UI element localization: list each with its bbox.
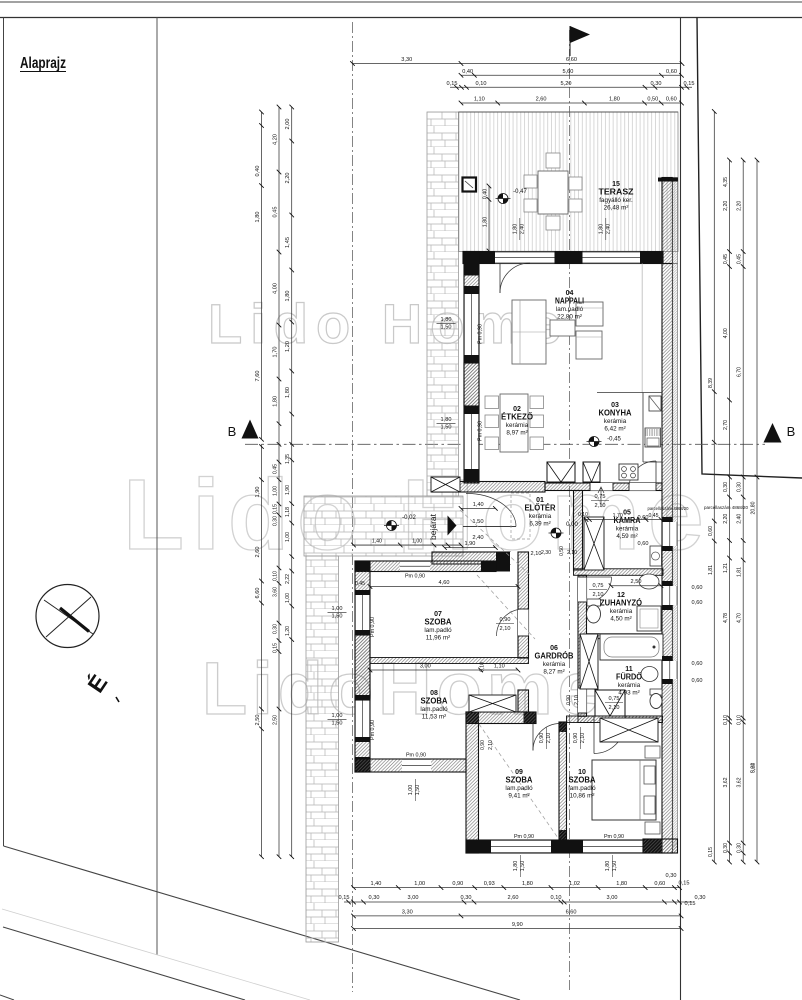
szoba07-08 divider wall xyxy=(370,658,529,664)
svg-text:6,60: 6,60 xyxy=(255,588,261,599)
svg-text:0,60: 0,60 xyxy=(666,97,677,103)
dimension chain vertical x=757 xyxy=(756,160,758,862)
svg-text:0,15: 0,15 xyxy=(684,81,695,87)
svg-text:1,80: 1,80 xyxy=(273,396,279,407)
north wall terrace door east xyxy=(583,252,641,264)
svg-text:kerámia: kerámia xyxy=(506,422,529,429)
szoba10 bed xyxy=(592,760,656,820)
svg-text:0,40: 0,40 xyxy=(255,166,261,177)
svg-text:0,30: 0,30 xyxy=(273,624,279,634)
zuhanyzo west wall xyxy=(578,575,587,716)
terasz north edge line xyxy=(459,111,679,113)
svg-text:4,78: 4,78 xyxy=(723,613,729,623)
svg-text:SZOBA: SZOBA xyxy=(506,775,533,784)
svg-text:0,45: 0,45 xyxy=(273,207,279,218)
svg-text:0,15: 0,15 xyxy=(273,643,279,653)
svg-text:3,00: 3,00 xyxy=(420,664,431,670)
dimension chain vertical x=743.2 xyxy=(742,160,744,862)
szoba09 north wall xyxy=(466,712,536,724)
right chain 1 lower xyxy=(713,442,715,862)
svg-text:3,62: 3,62 xyxy=(751,763,757,773)
szoba10 bedside tables xyxy=(645,746,660,758)
svg-text:0,60: 0,60 xyxy=(692,600,703,606)
svg-text:0,40: 0,40 xyxy=(483,189,489,200)
furdo bathtub xyxy=(600,634,663,660)
svg-text:kerámia: kerámia xyxy=(604,418,627,425)
svg-text:2,40: 2,40 xyxy=(606,224,612,235)
szoba09 door arc xyxy=(533,724,560,751)
svg-text:4,93 m²: 4,93 m² xyxy=(618,690,639,697)
nappali armchair 2 xyxy=(576,331,602,359)
svg-text:lam.padló: lam.padló xyxy=(420,706,448,713)
west wall nappali window xyxy=(464,294,479,355)
svg-text:0,93: 0,93 xyxy=(484,881,495,887)
diagonal plot boundary 2 xyxy=(3,927,245,1000)
house east wall with insulation xyxy=(662,264,673,854)
svg-text:0,00: 0,00 xyxy=(566,522,578,528)
svg-text:1,70: 1,70 xyxy=(613,513,623,519)
gardrob west wall piece xyxy=(518,690,529,712)
south wall window szoba09 xyxy=(491,840,551,853)
svg-text:1,80: 1,80 xyxy=(616,881,627,887)
svg-text:SZOBA: SZOBA xyxy=(569,775,596,784)
dashed projection line szoba07 xyxy=(460,510,530,575)
top border line 2 xyxy=(0,17,802,19)
szoba10 north wall xyxy=(567,716,663,723)
axis line B x=569.5 dash-dot xyxy=(569,30,571,990)
svg-text:0,15: 0,15 xyxy=(273,504,279,514)
svg-text:3,62: 3,62 xyxy=(737,777,743,787)
right boundary line bent x=697-702 xyxy=(697,18,802,479)
svg-text:1,00: 1,00 xyxy=(273,486,279,496)
svg-text:4,00: 4,00 xyxy=(723,328,729,338)
eloter dashed closet xyxy=(511,493,530,539)
svg-text:1,40: 1,40 xyxy=(370,881,381,887)
svg-text:4,70: 4,70 xyxy=(737,613,743,623)
svg-text:1,80: 1,80 xyxy=(513,224,519,235)
szoba09-10 divider end blocks xyxy=(559,722,567,732)
dashed projection line gardrob xyxy=(477,575,535,639)
svg-text:0,10: 0,10 xyxy=(476,81,487,87)
svg-text:bejárat: bejárat xyxy=(428,513,438,540)
east wall window jamb caps xyxy=(662,517,673,522)
svg-text:1,00: 1,00 xyxy=(332,713,343,719)
terasz internal vertical dim xyxy=(488,186,490,251)
svg-text:Alaprajz: Alaprajz xyxy=(20,55,66,72)
svg-text:3,30: 3,30 xyxy=(401,57,412,63)
bejarat arrow xyxy=(448,516,457,536)
south east corner block xyxy=(643,839,678,853)
svg-text:0,30: 0,30 xyxy=(461,895,472,901)
svg-text:6,60: 6,60 xyxy=(566,909,577,915)
zuhanyzo north wall (kamra south) xyxy=(574,569,664,576)
svg-text:1,50: 1,50 xyxy=(441,425,452,431)
svg-text:Pm 0,90: Pm 0,90 xyxy=(514,834,534,840)
svg-text:-0,02: -0,02 xyxy=(402,515,416,521)
house south wall xyxy=(466,840,662,853)
svg-text:1,81: 1,81 xyxy=(708,565,714,575)
svg-text:6,60: 6,60 xyxy=(566,57,577,63)
svg-text:0,50: 0,50 xyxy=(647,97,658,103)
right chain 1 upper xyxy=(713,112,715,443)
svg-text:3,30: 3,30 xyxy=(402,909,413,915)
entrance door leaf and arc xyxy=(463,525,516,527)
svg-text:6,39 m²: 6,39 m² xyxy=(529,521,550,528)
terasz benchmark -0.47 xyxy=(498,194,508,204)
svg-text:20,80: 20,80 xyxy=(751,501,757,514)
svg-text:4,60: 4,60 xyxy=(439,580,450,586)
kamra shelf xbox xyxy=(584,517,604,570)
dimension chain y=87 small xyxy=(450,86,692,88)
svg-text:1,50: 1,50 xyxy=(520,861,526,872)
hall door opening xyxy=(510,552,529,564)
konyha benchmark -0.45 xyxy=(589,437,599,447)
szoba07 north wall xyxy=(355,561,496,572)
svg-text:0,30: 0,30 xyxy=(666,873,677,879)
dimension chain horizontal y=547.6 xyxy=(445,547,496,549)
svg-text:B: B xyxy=(787,424,796,439)
svg-text:1,10: 1,10 xyxy=(494,664,505,670)
svg-text:kerámia: kerámia xyxy=(543,661,566,668)
section marker B left xyxy=(242,420,259,439)
svg-text:TERASZ: TERASZ xyxy=(599,187,634,196)
brick garden wall strip upper (along west facade) xyxy=(427,112,459,496)
svg-text:0,10: 0,10 xyxy=(578,512,588,518)
svg-text:0,15: 0,15 xyxy=(679,881,690,887)
terasz chairs xyxy=(546,153,560,168)
dimension chain horizontal y=915.9 xyxy=(354,915,682,917)
svg-text:2,60: 2,60 xyxy=(508,895,519,901)
bejarat benchmark -0.02 xyxy=(387,521,397,531)
svg-text:1,80: 1,80 xyxy=(522,881,533,887)
svg-text:2,50: 2,50 xyxy=(273,715,279,725)
svg-text:7,60: 7,60 xyxy=(255,371,261,382)
svg-text:0,45: 0,45 xyxy=(355,581,365,587)
svg-text:1,90: 1,90 xyxy=(465,541,476,547)
szoba07 west window xyxy=(355,595,370,630)
svg-text:1,00: 1,00 xyxy=(412,539,422,545)
kamra west wall xyxy=(574,491,583,571)
svg-text:0,90: 0,90 xyxy=(566,695,572,705)
svg-text:1,80: 1,80 xyxy=(483,217,489,228)
svg-text:parcellaszám 4868/20: parcellaszám 4868/20 xyxy=(704,505,749,510)
svg-text:2,00: 2,00 xyxy=(285,119,291,130)
svg-text:3,60: 3,60 xyxy=(273,587,279,597)
svg-text:2,30: 2,30 xyxy=(541,550,551,556)
nappali armchair 1 xyxy=(576,302,603,326)
szoba08 south window xyxy=(402,759,431,772)
svg-text:1,70: 1,70 xyxy=(273,347,279,358)
west wall bedrooms xyxy=(355,561,370,772)
svg-text:0,90: 0,90 xyxy=(573,733,579,744)
svg-text:kerámia: kerámia xyxy=(618,682,641,689)
svg-text:5,60: 5,60 xyxy=(563,69,574,75)
svg-text:2,40: 2,40 xyxy=(520,224,526,235)
dimension chain y=902 xyxy=(344,901,692,903)
svg-text:1,50: 1,50 xyxy=(332,614,343,620)
dimension chain horizontal y=585.7 xyxy=(611,585,661,587)
svg-text:0,30: 0,30 xyxy=(723,482,729,492)
dimension chain horizontal y=928.5 xyxy=(354,928,682,930)
svg-text:2,20: 2,20 xyxy=(285,173,291,184)
konyha counter xyxy=(642,393,644,463)
svg-text:6,42 m²: 6,42 m² xyxy=(604,426,625,433)
north wall corner blocks xyxy=(463,252,495,264)
svg-text:2,20: 2,20 xyxy=(723,201,729,211)
svg-text:2,10: 2,10 xyxy=(595,503,606,509)
svg-text:0,15: 0,15 xyxy=(339,895,350,901)
zuhanyzo door opening xyxy=(578,577,587,602)
svg-text:lam.padló: lam.padló xyxy=(568,785,596,792)
dimension chain horizontal y=670 xyxy=(370,669,518,671)
nappali coffee table xyxy=(550,320,575,336)
svg-text:0,90: 0,90 xyxy=(539,733,545,744)
svg-text:0,75: 0,75 xyxy=(593,583,604,589)
konyha door opening and arc xyxy=(629,483,656,491)
svg-text:0,60: 0,60 xyxy=(692,661,703,667)
svg-text:0,40: 0,40 xyxy=(462,69,473,75)
svg-text:4,00: 4,00 xyxy=(273,283,279,294)
svg-text:3,00: 3,00 xyxy=(607,895,618,901)
svg-text:2,22: 2,22 xyxy=(285,574,291,584)
svg-text:1,80: 1,80 xyxy=(609,97,620,103)
svg-text:0,90: 0,90 xyxy=(500,617,511,623)
eloter south wall xyxy=(432,552,510,564)
svg-text:1,45: 1,45 xyxy=(285,237,291,248)
svg-text:2,10: 2,10 xyxy=(593,592,604,598)
svg-text:2,40: 2,40 xyxy=(737,514,743,524)
svg-text:0,10: 0,10 xyxy=(551,895,562,901)
svg-text:2,10: 2,10 xyxy=(488,740,494,750)
svg-text:2,20: 2,20 xyxy=(737,201,743,211)
zuhanyzo shower xyxy=(637,606,661,631)
svg-text:1,00: 1,00 xyxy=(332,606,343,612)
svg-text:fagyálló ker.: fagyálló ker. xyxy=(599,197,633,204)
svg-text:4,59 m²: 4,59 m² xyxy=(616,533,637,540)
svg-text:6,70: 6,70 xyxy=(737,367,743,377)
dimension chain horizontal y=103 xyxy=(461,102,682,104)
svg-text:9,41 m²: 9,41 m² xyxy=(508,793,529,800)
eloter benchmark 0.00 xyxy=(551,528,561,538)
house north wall (terasz side) xyxy=(463,252,663,264)
svg-text:2,20: 2,20 xyxy=(723,514,729,524)
konyha sink xyxy=(645,428,661,447)
nappali terrace door arc xyxy=(500,263,530,293)
furdo south wall xyxy=(578,716,663,723)
etkezo south bump wall xyxy=(432,482,545,493)
svg-text:SZOBA: SZOBA xyxy=(421,696,448,705)
svg-text:1,80: 1,80 xyxy=(513,861,519,872)
vertical plot line x=157 xyxy=(156,18,158,956)
svg-text:1,10: 1,10 xyxy=(474,97,485,103)
svg-text:2,10: 2,10 xyxy=(580,733,586,744)
chimney shaft symbol 2 xyxy=(583,462,600,482)
szoba07 east wall xyxy=(518,552,529,658)
svg-text:2,60: 2,60 xyxy=(536,97,547,103)
left chain C lower xyxy=(291,444,293,856)
szoba07 north window xyxy=(400,561,430,572)
svg-text:1,50: 1,50 xyxy=(415,785,421,796)
east wall window furdo xyxy=(662,661,678,679)
left chain A upper xyxy=(261,112,263,439)
konyha stove xyxy=(619,464,638,480)
terasz east wall xyxy=(662,178,673,264)
svg-text:1,20: 1,20 xyxy=(285,626,291,636)
szoba09 north wall corner blocks xyxy=(466,712,479,724)
svg-text:2,40: 2,40 xyxy=(472,535,483,541)
svg-text:lam.padló: lam.padló xyxy=(424,627,452,634)
etkezo table xyxy=(500,394,528,452)
kamra north door opening xyxy=(590,483,613,491)
svg-text:1,20: 1,20 xyxy=(285,341,291,352)
svg-text:0,45: 0,45 xyxy=(273,464,279,474)
svg-text:1,80: 1,80 xyxy=(285,387,291,398)
svg-text:0,60: 0,60 xyxy=(654,881,665,887)
svg-text:0,30: 0,30 xyxy=(651,81,662,87)
brick walkway strip lower xyxy=(306,556,339,942)
szoba07 door opening xyxy=(518,609,529,636)
svg-text:ÉTKEZŐ: ÉTKEZŐ xyxy=(501,412,533,421)
svg-text:5,20: 5,20 xyxy=(561,81,572,87)
top border line 1 xyxy=(0,1,802,3)
svg-text:-0,47: -0,47 xyxy=(513,189,527,195)
svg-text:2,50: 2,50 xyxy=(255,715,261,726)
svg-text:0,30: 0,30 xyxy=(273,516,279,526)
svg-text:1,90: 1,90 xyxy=(255,487,261,498)
svg-text:1,80: 1,80 xyxy=(285,291,291,302)
svg-text:2,10: 2,10 xyxy=(567,550,577,556)
svg-text:0,60: 0,60 xyxy=(692,585,703,591)
dimension chain horizontal y=508.4 xyxy=(461,507,495,509)
szoba08 west window xyxy=(355,700,370,737)
svg-text:3,62: 3,62 xyxy=(723,777,729,787)
svg-text:Pm 0,90: Pm 0,90 xyxy=(604,834,624,840)
svg-text:1,80: 1,80 xyxy=(441,317,452,323)
svg-text:kerámia: kerámia xyxy=(610,608,633,615)
svg-text:Pm 0,90: Pm 0,90 xyxy=(478,421,484,441)
svg-text:8,39: 8,39 xyxy=(708,378,714,388)
svg-text:1,50: 1,50 xyxy=(612,861,618,872)
szoba08 wardrobe xbox xyxy=(469,695,516,712)
svg-text:1,35: 1,35 xyxy=(285,454,291,464)
svg-text:11,53 m²: 11,53 m² xyxy=(422,714,446,721)
svg-text:4,50 m²: 4,50 m² xyxy=(610,616,631,623)
svg-text:Pm 0,90: Pm 0,90 xyxy=(370,720,376,740)
east wall window kamra xyxy=(662,522,678,546)
dimension chain horizontal y=887.6 xyxy=(354,887,680,889)
svg-text:1,80: 1,80 xyxy=(605,861,611,872)
svg-text:parcellaszám 4868/20: parcellaszám 4868/20 xyxy=(648,506,690,511)
svg-text:0,15: 0,15 xyxy=(685,901,696,907)
svg-text:1,00: 1,00 xyxy=(285,532,291,542)
svg-text:FÜRDŐ: FÜRDŐ xyxy=(616,672,642,681)
svg-text:kerámia: kerámia xyxy=(529,513,552,520)
svg-text:8,97 m²: 8,97 m² xyxy=(506,430,527,437)
diagonal plot boundary 1 xyxy=(4,846,521,1000)
svg-text:22,80 m²: 22,80 m² xyxy=(557,314,582,321)
svg-text:8,27 m²: 8,27 m² xyxy=(543,669,564,676)
svg-text:1,40: 1,40 xyxy=(473,502,484,508)
svg-text:0,60: 0,60 xyxy=(638,541,649,547)
konyha south wall xyxy=(545,483,662,491)
svg-text:4,20: 4,20 xyxy=(273,134,279,145)
svg-text:Pm 0,90: Pm 0,90 xyxy=(370,617,376,637)
svg-text:0,75: 0,75 xyxy=(595,494,606,500)
fence post square at terasz west xyxy=(463,178,477,192)
svg-text:2,10: 2,10 xyxy=(546,733,552,744)
konyha fridge box xyxy=(649,396,661,411)
dimension chain vertical x=291.7 xyxy=(291,107,293,444)
svg-text:NAPPALI: NAPPALI xyxy=(555,296,584,305)
svg-text:Pm 0,90: Pm 0,90 xyxy=(405,574,425,580)
svg-text:0,30: 0,30 xyxy=(723,843,729,853)
svg-text:ZUHANYZÓ: ZUHANYZÓ xyxy=(600,598,642,607)
svg-text:lam.padló: lam.padló xyxy=(505,785,533,792)
dimension chain vertical x=729.5 xyxy=(729,160,731,862)
svg-text:2,50: 2,50 xyxy=(631,579,642,585)
svg-text:0,75: 0,75 xyxy=(609,696,620,702)
chimney shaft symbol 3 xyxy=(595,690,625,716)
svg-text:26,48 m²: 26,48 m² xyxy=(604,205,629,212)
furdo cabinet xbox xyxy=(580,634,598,689)
svg-text:ELŐTÉR: ELŐTÉR xyxy=(525,503,556,512)
szoba10 door opening xyxy=(594,716,625,723)
svg-text:kerámia: kerámia xyxy=(616,526,639,533)
dimension chain vertical x=279 xyxy=(278,107,280,444)
svg-text:1,00: 1,00 xyxy=(414,881,425,887)
svg-text:2,70: 2,70 xyxy=(723,420,729,430)
svg-text:Pm 0,90: Pm 0,90 xyxy=(478,324,484,344)
svg-text:KONYHA: KONYHA xyxy=(599,408,632,417)
svg-text:-0,45: -0,45 xyxy=(607,437,621,443)
svg-text:0,45: 0,45 xyxy=(737,254,743,264)
nappali sofa xyxy=(512,300,546,364)
svg-text:10,86 m²: 10,86 m² xyxy=(570,793,595,800)
svg-text:0,50: 0,50 xyxy=(559,546,565,556)
dimension chain horizontal y=586.5 xyxy=(370,586,518,588)
left chain A lower xyxy=(261,444,263,856)
section line B-B horizontal dash-dot xyxy=(245,443,765,445)
svg-text:0,45: 0,45 xyxy=(648,513,658,519)
north symbol circle xyxy=(36,585,99,648)
terasz hatched deck xyxy=(459,112,679,252)
dimension chain horizontal y=75.3 xyxy=(461,74,682,76)
svg-text:1,00: 1,00 xyxy=(408,785,414,796)
svg-text:1,80: 1,80 xyxy=(255,212,261,223)
zuhanyzo wc xyxy=(587,599,601,606)
diagonal corner sliver xyxy=(0,995,14,1000)
svg-text:2,10: 2,10 xyxy=(500,626,511,632)
west wall etkezo window xyxy=(464,414,479,475)
north wall terrace door west xyxy=(495,252,555,264)
zuhanyzo washbasin xyxy=(639,574,659,589)
svg-text:0,10: 0,10 xyxy=(737,715,743,725)
svg-text:0,10: 0,10 xyxy=(723,715,729,725)
svg-text:0,30: 0,30 xyxy=(737,843,743,853)
svg-text:2,10: 2,10 xyxy=(609,705,620,711)
svg-text:1,80: 1,80 xyxy=(599,224,605,235)
svg-text:0,10: 0,10 xyxy=(480,662,486,672)
svg-text:0,90: 0,90 xyxy=(452,881,463,887)
szoba10 wardrobe xbox xyxy=(600,718,658,742)
roof overhang light line nappali east xyxy=(641,264,643,393)
svg-text:4,35: 4,35 xyxy=(723,177,729,187)
svg-text:0,15: 0,15 xyxy=(447,81,458,87)
svg-text:1,81: 1,81 xyxy=(737,567,743,577)
zuhanyzo-furdo divider wall xyxy=(587,634,663,639)
svg-text:Pm 0,90: Pm 0,90 xyxy=(406,753,426,759)
svg-text:0,60: 0,60 xyxy=(692,678,703,684)
